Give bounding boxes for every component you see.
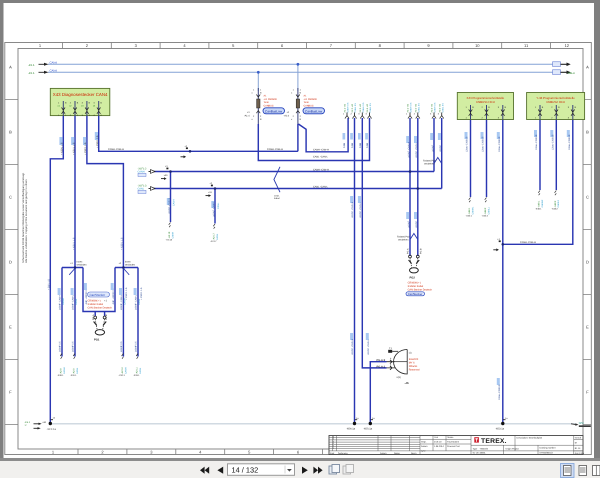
svg-text:Alle Rechte vorbehalten. Copyi: Alle Rechte vorbehalten. Copying of this… — [25, 179, 28, 263]
svg-text:-A2:18: -A2:18 — [166, 239, 173, 242]
svg-text:+ X30/1 1.5: + X30/1 1.5 — [61, 142, 64, 155]
svg-text:CANH: CANH — [171, 232, 174, 239]
wire A horizontal — [154, 171, 434, 173]
connector J6 half circle — [377, 347, 421, 385]
svg-text:Drawing number: Drawing number — [540, 447, 556, 450]
splice label wire A — [161, 165, 168, 180]
svg-text:A: A — [586, 65, 589, 70]
pin cluster K2 labels and chevrons — [406, 102, 444, 119]
svg-text:LtGNF: LtGNF — [415, 220, 418, 228]
svg-text:CANL: CANL — [76, 367, 79, 374]
rotated wire labels (blue) — [48, 132, 571, 400]
svg-text:CR0809(+-): CR0809(+-) — [408, 281, 421, 284]
wire X44 pin2 stub — [486, 120, 488, 198]
TEREX logo — [474, 437, 506, 445]
wire X48 pin1 stub — [539, 120, 541, 191]
svg-text:CANH 0.5: CANH 0.5 — [434, 102, 437, 113]
wire X43 pin4 CAN-H run — [99, 116, 298, 151]
svg-text:CanBusLow: CanBusLow — [265, 109, 283, 113]
wire B drop — [214, 189, 216, 224]
svg-text:CanStecker: CanStecker — [408, 292, 423, 296]
svg-text:verdrehen: verdrehen — [398, 239, 409, 242]
svg-text:0.5bl: 0.5bl — [359, 142, 362, 148]
svg-text:E: E — [586, 325, 589, 330]
wire PG1 stubs — [95, 312, 104, 317]
svg-text:-X33:1: -X33:1 — [133, 374, 140, 377]
connector loop PG1 — [92, 314, 108, 341]
svg-text:CANL: CANL — [217, 202, 220, 209]
window top edge — [0, 0, 600, 3]
svg-text:-A1:4: -A1:4 — [244, 115, 250, 118]
svg-text:CANL 0.5: CANL 0.5 — [354, 102, 357, 112]
nav next button — [302, 467, 323, 474]
svg-text:Zust: Zust — [330, 452, 335, 455]
svg-text:Datum: Datum — [380, 452, 387, 455]
svg-text:-A2:8: -A2:8 — [60, 368, 63, 374]
svg-text:Description: Stromlaufplan: Description: Stromlaufplan — [517, 436, 543, 439]
svg-text:CANH1: CANH1 — [471, 206, 474, 215]
svg-text:+ X31/1 1.5: + X31/1 1.5 — [72, 142, 75, 155]
svg-text:SP8: SP8 — [579, 422, 585, 425]
svg-text:CNBUS1 HCU: CNBUS1 HCU — [476, 100, 495, 104]
svg-text:12: 12 — [565, 43, 570, 48]
splice label CAN-H — [181, 145, 188, 158]
window bottom separator — [0, 458, 600, 461]
svg-text:PG.A: PG.A — [407, 248, 410, 254]
connector X48 Programmierschnittstelle — [527, 93, 585, 120]
wire drop to terminator R1 — [257, 71, 260, 91]
svg-text:Änderung: Änderung — [338, 452, 348, 455]
splice marks above junction2 — [119, 261, 136, 267]
svg-text:X2:2 -A2: X2:2 -A2 — [414, 103, 417, 112]
svg-text:CANH -CAN-H: CANH -CAN-H — [520, 241, 536, 244]
nav first-page button — [200, 467, 223, 474]
svg-text:CANL2: CANL2 — [557, 199, 560, 207]
svg-text:Proezes Part: Proezes Part — [447, 445, 460, 448]
svg-text:CANL: CANL — [75, 298, 78, 305]
wire cluster2 pin4 to wire B — [441, 118, 443, 189]
svg-text:LtGNF -CAN-H: LtGNF -CAN-H — [351, 339, 354, 355]
node wire B / PG2b — [417, 187, 420, 190]
wire terminator R1 to pin J4 — [258, 118, 369, 161]
pin cluster K1 labels and chevrons — [343, 102, 372, 119]
X44 pin stubs ends — [466, 198, 491, 218]
wire cluster1 pin3 to J6 — [362, 118, 386, 368]
svg-text:-X30:1: -X30:1 — [57, 374, 64, 377]
svg-text:CANL -CAN-L: CANL -CAN-L — [313, 185, 329, 188]
svg-text:10: 10 — [475, 43, 480, 48]
svg-text:+ X32/1 1.5: + X32/1 1.5 — [84, 142, 87, 155]
connector X43 Diagnosestecker CAN4 — [50, 88, 110, 115]
node splice wire A — [169, 170, 172, 173]
svg-text:-F5.1: -F5.1 — [28, 71, 35, 75]
X44 pins — [466, 105, 507, 120]
svg-text:TEREX.: TEREX. — [481, 438, 507, 445]
X48 pin stubs ends — [535, 191, 560, 211]
wire X44 pin1 stub — [470, 120, 472, 198]
svg-text:LtGNF: LtGNF — [439, 144, 442, 152]
viewer toolbar controls — [200, 464, 600, 478]
svg-text:LtGNF 0.5: LtGNF 0.5 — [135, 341, 138, 352]
svg-text:verbinden: verbinden — [125, 264, 136, 267]
wire X44 pin3 long down — [502, 120, 504, 424]
svg-text:12sw -CNBUS: 12sw -CNBUS — [535, 134, 538, 150]
svg-text:D: D — [9, 260, 12, 265]
svg-text:CAN Stecker Deutsch: CAN Stecker Deutsch — [88, 307, 113, 310]
node ground 1 — [49, 422, 52, 425]
svg-text:-X2.1:1a: -X2.1:1a — [47, 428, 57, 431]
svg-text:CANL: CANL — [139, 367, 142, 374]
svg-text:+ X32/1 1.5: + X32/1 1.5 — [121, 237, 124, 250]
window right edge — [594, 3, 600, 459]
ground junction marks and labels — [25, 417, 57, 432]
svg-text:CBL4: CBL4 — [568, 71, 575, 75]
svg-text:D: D — [586, 260, 589, 265]
svg-text:CanStecker: CanStecker — [90, 293, 106, 297]
svg-text:CANH 0.5: CANH 0.5 — [362, 102, 365, 113]
view single-page button (active) — [561, 464, 575, 478]
svg-text:Innen: Innen — [125, 261, 131, 264]
svg-text:Norm: Norm — [411, 452, 417, 455]
svg-text:Gesch: Gesch — [575, 436, 582, 439]
svg-text:-X44:2: -X44:2 — [484, 207, 487, 214]
svg-text:X2:1 -A2: X2:1 -A2 — [407, 103, 410, 112]
wire cluster2 pin2 down to PG2 — [417, 118, 419, 256]
svg-text:CANH 0.5: CANH 0.5 — [410, 102, 413, 113]
svg-text:CANH -CAN-H: CANH -CAN-H — [267, 148, 283, 151]
svg-text:-X44:1: -X44:1 — [468, 207, 471, 214]
svg-text:LtGNF 0.5: LtGNF 0.5 — [72, 341, 75, 352]
svg-text:-X48:2: -X48:2 — [551, 208, 558, 211]
svg-text:CANL1: CANL1 — [487, 206, 490, 214]
node splice CAN-H — [189, 150, 192, 153]
svg-text:B: B — [586, 130, 589, 135]
svg-text:Name: Name — [394, 452, 401, 455]
svg-text:-X48:2: -X48:2 — [554, 200, 557, 207]
node ground 4 — [501, 422, 504, 425]
svg-text:LtGNF: LtGNF — [431, 144, 434, 152]
svg-text:4848L: 4848L — [480, 452, 487, 455]
wire drop B end pin — [210, 224, 219, 243]
resistor R1 CAN terminator — [244, 88, 285, 124]
svg-text:Type: Type — [473, 447, 479, 450]
svg-text:-X31:1: -X31:1 — [70, 374, 77, 377]
svg-text:-X4F +CR08 0.5: -X4F +CR08 0.5 — [112, 288, 115, 305]
svg-text:M: M — [575, 442, 577, 445]
wire cluster2 pin1 down to PG2 — [409, 118, 411, 256]
svg-text:Datum: Datum — [421, 445, 428, 448]
svg-text:LtGNF -CAN-H: LtGNF -CAN-H — [407, 142, 410, 158]
svg-text:CANH: CANH — [124, 367, 127, 374]
svg-text:PG.A:1: PG.A:1 — [377, 365, 386, 368]
svg-text:-X44:2: -X44:2 — [482, 215, 489, 218]
column ticks bottom band — [78, 449, 323, 455]
wire B left arrow connector — [138, 184, 156, 193]
svg-text:24.9.10: 24.9.10 — [434, 441, 442, 444]
splice marks above junction1 — [70, 261, 87, 267]
svg-text:12sw -CNBUS: 12sw -CNBUS — [482, 136, 485, 152]
svg-text:CANH -CAN-H: CANH -CAN-H — [313, 149, 329, 152]
nav last-page button — [313, 467, 318, 474]
splice label X48 branch — [493, 238, 500, 251]
svg-text:0.5bl: 0.5bl — [366, 142, 369, 148]
svg-text:verdrehen: verdrehen — [424, 163, 435, 166]
svg-text:-X4F +CR08 0.5: -X4F +CR08 0.5 — [85, 288, 88, 305]
svg-text:12sw -CNBUS: 12sw -CNBUS — [466, 136, 469, 152]
svg-text:-A2:11: -A2:11 — [136, 367, 139, 374]
wire inner U loop PG1 — [83, 268, 115, 312]
top bus wire CAN4L — [28, 70, 575, 75]
svg-text:LtGNF 0.5: LtGNF 0.5 — [59, 341, 62, 352]
svg-text:-A2:17: -A2:17 — [210, 240, 217, 243]
svg-text:Dat: Dat — [435, 436, 439, 439]
svg-text:X2:3 -A2: X2:3 -A2 — [431, 103, 434, 112]
node splice wire B — [214, 187, 217, 190]
node ground 3 — [369, 422, 372, 425]
svg-text:LtGNF 0.5: LtGNF 0.5 — [120, 341, 123, 352]
column ticks top band — [63, 43, 551, 49]
left structure strand end pins — [57, 354, 142, 378]
wire B horizontal — [154, 188, 442, 190]
svg-text:B: B — [9, 130, 12, 135]
svg-text:LtGNF -CAN-H: LtGNF -CAN-H — [351, 202, 354, 218]
svg-text:57760/0601/2: 57760/0601/2 — [540, 451, 554, 454]
svg-text:CANL 0.5: CANL 0.5 — [441, 102, 444, 112]
page input box — [228, 464, 295, 476]
resistor R2 CAN terminator — [284, 88, 325, 124]
wire A drop — [170, 172, 172, 223]
svg-text:C: C — [586, 195, 589, 200]
svg-text:CANH -CAN-H: CANH -CAN-H — [313, 168, 329, 171]
svg-text:0.5bl: 0.5bl — [351, 142, 354, 148]
wire drop to terminator R2 — [297, 63, 300, 91]
svg-text:CANH2: CANH2 — [541, 199, 544, 208]
svg-text:12sw -CNBUS: 12sw -CNBUS — [498, 384, 501, 400]
svg-text:PG.B: PG.B — [420, 248, 423, 254]
svg-text:CANL 0.5: CANL 0.5 — [369, 102, 372, 112]
svg-text:-J6: -J6 — [405, 381, 409, 385]
svg-text:CANBUS: CANBUS — [304, 104, 314, 107]
svg-text:X1:1 -A2: X1:1 -A2 — [344, 103, 347, 112]
wire left junction2 branches — [115, 268, 138, 357]
title block small texts — [330, 436, 585, 455]
wire X48 pin3 to junction — [503, 120, 573, 245]
twisted pair mark cluster2 upper — [434, 158, 442, 164]
svg-text:1.08.2014: 1.08.2014 — [434, 445, 445, 448]
svg-text:CANL -CAN-L: CANL -CAN-L — [313, 156, 329, 159]
svg-text:+ X33/1 1.5: + X33/1 1.5 — [96, 135, 99, 148]
svg-text:0.5bl: 0.5bl — [343, 142, 346, 148]
X43 pins — [58, 101, 103, 117]
svg-text:-X05:1a: -X05:1a — [363, 428, 373, 431]
svg-text:Twisted Pair: Twisted Pair — [397, 236, 410, 239]
svg-text:LtGNF -CAN-L: LtGNF -CAN-L — [415, 142, 418, 158]
splice label wire B — [206, 182, 213, 197]
revision table lines — [329, 436, 583, 455]
svg-text:PG2: PG2 — [410, 276, 416, 279]
twisted mark junction2 — [123, 268, 129, 275]
wire left junction1 branches — [62, 268, 83, 357]
svg-text:CANL: CANL — [216, 233, 219, 240]
bottom toolbar — [0, 461, 600, 478]
svg-text:CANH: CANH — [63, 367, 66, 374]
connector loop PG2 — [406, 248, 433, 296]
svg-text:CANH 0.5: CANH 0.5 — [347, 102, 350, 113]
svg-text:-A2:9: -A2:9 — [73, 368, 76, 374]
ground bus right end label — [571, 422, 591, 427]
wire R2 diagonal jog — [298, 118, 348, 152]
node junction2 — [122, 266, 125, 269]
twisted mark junction1 — [69, 268, 75, 275]
svg-text:LtGNF: LtGNF — [407, 220, 410, 228]
svg-text:Travestanne: Travestanne — [447, 441, 460, 444]
svg-text:X1:2 -A2: X1:2 -A2 — [351, 103, 354, 112]
svg-text:Reserved: Reserved — [409, 369, 420, 372]
svg-text:C: C — [9, 195, 12, 200]
svg-text:Lyse: Lyse — [421, 450, 426, 453]
svg-text:X43 Diagnosestecker CAN4: X43 Diagnosestecker CAN4 — [53, 92, 108, 97]
horizontal wire name labels — [108, 148, 536, 244]
window left edge — [0, 3, 4, 459]
revision row numbers — [333, 436, 334, 450]
svg-text:PG.A:2: PG.A:2 — [377, 359, 386, 362]
svg-text:verbinden: verbinden — [77, 264, 88, 267]
wire cluster1 pin2 long down — [354, 118, 356, 424]
svg-text:-X32:1: -X32:1 — [118, 374, 125, 377]
svg-text:12sw -CNBUS: 12sw -CNBUS — [551, 134, 554, 150]
svg-text:s(3): s(3) — [397, 376, 401, 379]
svg-text:CanBusLow: CanBusLow — [305, 109, 323, 113]
left margin rotated note text — [22, 173, 28, 263]
view facing button (cut off) — [593, 466, 600, 476]
copy icon 1 — [329, 465, 340, 475]
wire A left arrow connector — [138, 167, 156, 176]
svg-text:PG1: PG1 — [94, 339, 100, 342]
nav prev button — [217, 467, 223, 474]
svg-text:CANH: CANH — [172, 199, 175, 206]
svg-text:CNBUS2 HCU: CNBUS2 HCU — [546, 100, 565, 104]
svg-text:X2:4 -A2: X2:4 -A2 — [438, 103, 441, 112]
svg-text:LtGNF -CAN-L: LtGNF -CAN-L — [212, 201, 215, 217]
svg-text:+ X33/1 1.5: + X33/1 1.5 — [140, 287, 143, 300]
wire terminator R2 vertical — [297, 124, 299, 151]
svg-text:+ X32/1 1.5: + X32/1 1.5 — [125, 287, 128, 300]
svg-text:+ X31/1 1.5: + X31/1 1.5 — [72, 237, 75, 250]
svg-text:Anz 132e: Anz 132e — [575, 452, 585, 455]
node X48 branch — [502, 243, 505, 246]
X48 pins — [535, 105, 577, 120]
svg-text:-A1:4: -A1:4 — [284, 115, 290, 118]
svg-text:Bl. 14: Bl. 14 — [575, 447, 581, 450]
svg-text:Origin Project: Origin Project — [506, 448, 520, 451]
svg-text:(1): (1) — [409, 351, 412, 354]
svg-text:-A2:18: -A2:18 — [168, 231, 171, 238]
drawing frame inner border — [18, 49, 583, 450]
wire colour highlight blobs — [58, 130, 570, 385]
svg-text:12sw -CNBUS: 12sw -CNBUS — [498, 136, 501, 152]
svg-text:CANBUS: CANBUS — [264, 104, 274, 107]
svg-text:E: E — [9, 325, 12, 330]
svg-text:CAN4: CAN4 — [50, 61, 58, 65]
annotation CanStecker left — [88, 292, 113, 310]
copy icon 2 — [343, 465, 354, 475]
svg-text:CANH: CANH — [62, 298, 65, 305]
view continuous button — [579, 466, 587, 476]
connector X44 Programmierschnittstelle — [457, 93, 513, 120]
svg-text:CAN4: CAN4 — [50, 69, 58, 73]
wire X43 pin3 down jog right — [87, 116, 124, 268]
node wire A / PG2a — [409, 170, 412, 173]
svg-text:CANL: CANL — [138, 188, 145, 191]
wire drop A end pin — [166, 223, 175, 242]
svg-text:Name: Name — [448, 436, 455, 439]
svg-text:A: A — [9, 65, 12, 70]
svg-text:12sw -CNBUS: 12sw -CNBUS — [568, 134, 571, 150]
svg-text:-A2:10: -A2:10 — [121, 367, 124, 374]
svg-text:-X44:1: -X44:1 — [466, 215, 473, 218]
svg-text:X1:3 -A2: X1:3 -A2 — [359, 103, 362, 112]
svg-text:CANH: CANH — [138, 171, 145, 174]
svg-text:-X03:1a: -X03:1a — [495, 428, 505, 431]
svg-text:CANL 0.5: CANL 0.5 — [417, 102, 420, 112]
svg-text:LtGNF -CAN-L: LtGNF -CAN-L — [359, 202, 362, 218]
row ticks left margin — [5, 100, 18, 425]
svg-text:-X04:1a: -X04:1a — [346, 428, 356, 431]
svg-text:Twisted Pair: Twisted Pair — [423, 160, 436, 163]
title block outline — [329, 436, 583, 455]
svg-text:TS602/S: TS602/S — [480, 447, 489, 450]
svg-text:Innen: Innen — [77, 261, 83, 264]
left structure strand rotated labels — [59, 288, 141, 352]
node ground 2 — [353, 422, 356, 425]
svg-text:1: 1 — [333, 447, 334, 450]
svg-text:CANH -CAN-H: CANH -CAN-H — [108, 148, 124, 151]
svg-text:-X48:1: -X48:1 — [535, 208, 542, 211]
row ticks right margin — [583, 100, 592, 425]
svg-text:+ 30/1 1.5: + 30/1 1.5 — [48, 279, 51, 290]
wire J6 upper pin to ground — [370, 362, 386, 424]
svg-text:Kabel: Kabel — [274, 197, 280, 200]
wire X43 pin2 down — [74, 116, 76, 268]
svg-text:Gepr.: Gepr. — [421, 441, 427, 444]
ground bus — [50, 423, 576, 425]
wire X48 pin2 stub — [555, 120, 557, 191]
svg-text:X1:4 -A2: X1:4 -A2 — [366, 103, 369, 112]
svg-text:-A2:17: -A2:17 — [213, 233, 216, 240]
svg-text:-X48:1: -X48:1 — [538, 200, 541, 207]
top bus wire CAN4H — [28, 62, 571, 67]
svg-text:-F5.1: -F5.1 — [28, 63, 35, 67]
wire cluster2 pin3 to wire A — [433, 118, 435, 172]
node junction1 — [74, 266, 77, 269]
wire X43 pin1 down-left to ground bus — [50, 116, 63, 424]
svg-text:14 / 132: 14 / 132 — [232, 465, 259, 474]
svg-text:LtGNF -CAN-L: LtGNF -CAN-L — [367, 339, 370, 355]
twisted pair mark PG2 — [410, 234, 418, 240]
cable crossing mark on wires A/B — [274, 167, 280, 192]
svg-text:LtGNF -CAN-H: LtGNF -CAN-H — [168, 198, 171, 214]
